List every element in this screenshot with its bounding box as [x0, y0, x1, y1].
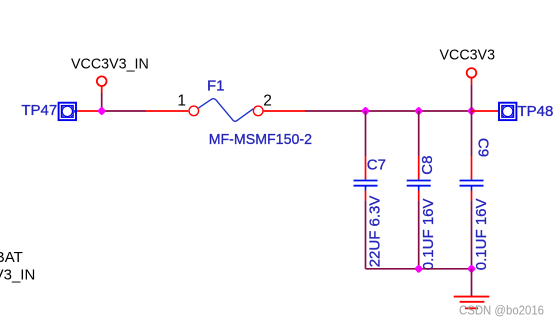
svg-text:1: 1	[177, 92, 186, 109]
capacitor C7 top wire (maroon)	[365, 111, 367, 156]
svg-text:2: 2	[263, 92, 272, 109]
capacitor C7 symbol	[354, 179, 378, 190]
pin F1.1 circle	[189, 106, 199, 116]
wire C7 bottom (maroon)	[365, 200, 367, 268]
pin F1.2 lead (red)	[264, 110, 305, 112]
wire junction to F1 (maroon)	[102, 110, 146, 112]
wire C8 bottom (maroon)	[418, 200, 420, 268]
svg-text:VCC3V3: VCC3V3	[440, 47, 496, 64]
junction at C7	[361, 106, 370, 115]
capacitor C8 top wire (maroon)	[418, 111, 420, 156]
pin TP47 lead (red)	[77, 110, 101, 112]
pin F1.2 circle	[253, 106, 263, 116]
pin C8.2 (red)	[418, 191, 420, 201]
pin C7.2 (red)	[365, 191, 367, 201]
svg-text:0.1UF 16V: 0.1UF 16V	[473, 198, 490, 270]
testpoint TP47 symbol	[59, 103, 77, 120]
svg-text:C9: C9	[474, 138, 491, 157]
junction at VCC3V3	[467, 106, 476, 115]
wire VCC3V3_IN vertical	[101, 93, 103, 111]
junction at C8	[414, 106, 423, 115]
junction at C9 bottom	[467, 264, 476, 273]
power port VCC3V3 stub (red)	[471, 78, 473, 84]
svg-text:TP47: TP47	[21, 102, 57, 119]
svg-text:C8: C8	[419, 156, 436, 175]
capacitor C8 symbol	[407, 179, 431, 190]
capacitor C9 symbol	[460, 179, 484, 190]
pin C7.1 (red)	[365, 156, 367, 179]
junction at VCC3V3_IN	[97, 106, 106, 115]
power port VCC3V3_IN stub (red)	[101, 86, 103, 93]
svg-text:V3_IN: V3_IN	[0, 267, 35, 284]
pin TP48 lead (red)	[472, 110, 499, 112]
wire VCC3V3 vertical	[471, 84, 473, 111]
svg-text:22UF 6.3V: 22UF 6.3V	[367, 196, 384, 268]
svg-text:F1: F1	[207, 78, 225, 95]
ground symbol	[454, 297, 490, 309]
pin C9.2 (red)	[471, 191, 473, 201]
wire F1 to VCC3V3 node (maroon)	[305, 110, 472, 112]
pin C9.1 (red)	[471, 156, 473, 179]
svg-text:VCC3V3_IN: VCC3V3_IN	[71, 55, 149, 72]
power port VCC3V3 circle	[467, 68, 477, 78]
wire to ground (maroon)	[471, 269, 473, 297]
power port VCC3V3_IN circle	[97, 76, 107, 86]
svg-text:MF-MSMF150-2: MF-MSMF150-2	[209, 131, 312, 148]
testpoint TP48 symbol	[499, 103, 516, 120]
junction at C8 bottom	[414, 264, 423, 273]
pin F1.1 lead (red)	[146, 110, 188, 112]
svg-text:TP48: TP48	[518, 103, 554, 120]
wire bottom bus (maroon)	[366, 268, 472, 270]
wire C9 bottom (maroon)	[471, 200, 473, 268]
svg-text:CSDN @bo2016: CSDN @bo2016	[459, 304, 544, 318]
svg-text:0.1UF 16V: 0.1UF 16V	[420, 198, 437, 270]
pin C8.1 (red)	[418, 156, 420, 179]
capacitor C9 top wire (maroon)	[471, 111, 473, 156]
svg-text:C7: C7	[367, 156, 386, 173]
svg-text:BAT: BAT	[0, 249, 23, 266]
fuse F1 body	[199, 99, 254, 122]
